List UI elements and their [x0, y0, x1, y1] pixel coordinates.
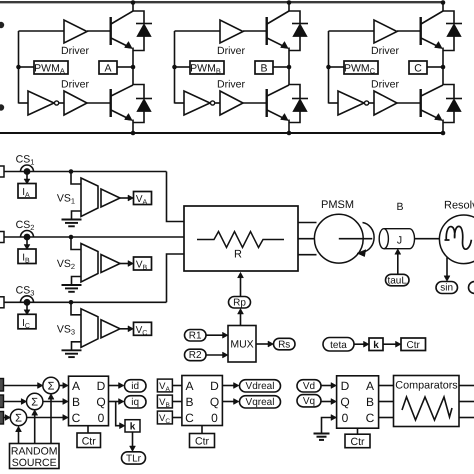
inverter (NOT gate) phase B [184, 91, 210, 115]
port iA* (left edge) [0, 379, 4, 392]
block Ctr3 [345, 434, 370, 448]
wire driver to Q5 base [397, 30, 420, 32]
wire driver to Q4 base [243, 102, 266, 104]
svg-text:Driver: Driver [371, 45, 400, 57]
wire CS3 to R block [167, 254, 185, 302]
tag VA2 [157, 379, 172, 392]
ground VS2 [62, 284, 82, 286]
wire to upper driver C [329, 30, 375, 32]
arrow random to S1 [50, 398, 52, 444]
svg-text:PMSM: PMSM [321, 199, 354, 211]
tag Vdreal [240, 380, 281, 392]
svg-text:Driver: Driver [217, 45, 246, 57]
arrow resolver to sin [446, 258, 448, 278]
arrow R2 to MUX [206, 354, 224, 356]
buffer VS3b [101, 320, 120, 338]
ground 0 input [314, 433, 330, 435]
wires dq0 to comparators [379, 385, 394, 387]
svg-text:B: B [260, 63, 267, 75]
wire VB2 to box [172, 401, 182, 403]
wire driver to Q2 base [87, 102, 110, 104]
transistor Q6 (lower IGBT, phase C) [420, 89, 422, 117]
wire to VS1 [71, 172, 81, 185]
driver U4 (lower, phase B) [220, 91, 243, 115]
wire VS2 to ground [72, 277, 82, 286]
tag Rs [274, 338, 296, 350]
svg-text:Ctr: Ctr [195, 436, 210, 448]
arrow teta to k [354, 343, 365, 345]
driver U3 (upper, phase B) [220, 20, 243, 43]
port iC* (left edge) [0, 412, 4, 425]
svg-text:R2: R2 [189, 350, 202, 361]
svg-text:Q: Q [96, 395, 105, 409]
svg-text:C: C [185, 411, 194, 425]
driver U5 (upper, phase C) [374, 20, 397, 43]
svg-text:0: 0 [98, 411, 105, 425]
block abc-to-dq0 transform 2 [182, 376, 223, 426]
box VA [134, 192, 152, 205]
driver U2 (lower, phase A) [64, 91, 87, 115]
buffer VS1b [101, 189, 120, 207]
wire phase A line [4, 171, 167, 173]
DC+ top rail [0, 1, 443, 3]
svg-text:teta: teta [330, 340, 347, 351]
tag Vqreal [240, 396, 281, 408]
svg-text:tauL: tauL [387, 275, 407, 286]
svg-text:Vq: Vq [303, 396, 315, 407]
svg-text:A: A [366, 379, 374, 393]
inverter (NOT gate) phase A [28, 91, 54, 115]
svg-text:Driver: Driver [61, 45, 90, 57]
node bottom rail phase A [131, 131, 136, 136]
svg-text:Σ: Σ [31, 396, 38, 408]
wire VC2 to box [172, 417, 182, 419]
PWMC tag box [344, 61, 378, 74]
node PWMB junction [172, 65, 177, 70]
rotation arrow [363, 223, 375, 253]
node phase output C [441, 65, 446, 70]
arrow tauL to J [397, 253, 399, 275]
box IC [18, 314, 36, 329]
wire Q2 emitter to bottom rail [132, 120, 134, 134]
svg-text:k: k [130, 422, 136, 433]
arrow Q to Vqreal [222, 401, 234, 403]
svg-text:C: C [366, 411, 375, 425]
wire to VS2 [71, 237, 81, 250]
phase label box A [99, 61, 117, 74]
svg-text:Driver: Driver [217, 79, 246, 91]
inverter (NOT gate) phase C [338, 91, 364, 115]
inertia cylinder J [384, 229, 415, 249]
node phase output B [287, 65, 292, 70]
wire VS1 to ground [72, 211, 82, 220]
arrow to VA [120, 197, 129, 199]
wire VS3 to ground [72, 342, 82, 351]
tag sin [436, 282, 458, 294]
ground VS1 [62, 219, 82, 221]
svg-text:Q: Q [340, 395, 349, 409]
port phase C input (left edge) [0, 297, 4, 308]
svg-text:J: J [397, 235, 402, 247]
wire to upper driver A [19, 30, 65, 32]
svg-text:B: B [72, 395, 80, 409]
wire to inverter B [175, 102, 185, 104]
tag Vd [297, 380, 321, 392]
amplifier VS1 [81, 178, 98, 217]
wire PWMA feed vertical [18, 31, 20, 104]
svg-text:Ctr: Ctr [82, 435, 97, 447]
wire NOT to lower driver A [59, 102, 64, 104]
wire A tag to phase node [117, 66, 133, 68]
arrow k2 to TLr [132, 432, 134, 448]
node PWMA junction [16, 65, 21, 70]
wire to Ctr1 [87, 426, 89, 433]
wire NOT to lower driver B [215, 102, 220, 104]
block Ctr [401, 338, 426, 351]
resolver [439, 215, 474, 264]
wire Q4 emitter to bottom rail [288, 120, 290, 134]
svg-text:TLr: TLr [126, 453, 142, 464]
port phase B input (left edge) [0, 232, 4, 243]
port DC+ (left edge circle) [0, 22, 4, 28]
svg-text:Rp: Rp [233, 298, 246, 309]
tag iq [125, 396, 147, 408]
svg-text:A: A [185, 379, 193, 393]
svg-text:Rs: Rs [278, 339, 290, 350]
transistor Q2 (lower IGBT, phase A) [109, 89, 111, 117]
wire VA2 to box [172, 385, 182, 387]
box IB [18, 249, 36, 264]
diode D1 (upper freewheel, phase A) [133, 11, 144, 24]
wire phase node column C [442, 48, 444, 86]
wire to inverter C [329, 102, 339, 104]
node VS2 branch [69, 235, 74, 240]
svg-text:Ctr: Ctr [351, 436, 366, 448]
port phase A input (left edge) [0, 166, 4, 177]
port DC- (left edge circle) [0, 104, 4, 110]
current sensor CS1 [21, 165, 34, 171]
amplifier VS2 [81, 244, 98, 283]
svg-text:RANDOM: RANDOM [11, 445, 58, 457]
wire CS1 to R block [167, 172, 185, 222]
node top rail phase A [131, 0, 136, 5]
arrow CS2 to IB [26, 240, 28, 245]
wire PWMA tag to node [19, 66, 35, 68]
tag Vq [297, 395, 321, 407]
block abc-to-dq0 transform [69, 376, 109, 426]
arrow R1 to MUX [206, 334, 224, 336]
PWMB tag box [190, 61, 224, 74]
transistor Q1 (upper IGBT, phase A) [109, 17, 111, 45]
block Ctr2 [190, 434, 215, 448]
diode D3 (upper freewheel, phase B) [289, 11, 300, 24]
wire port to sum 3 [4, 417, 7, 419]
triangle wave [402, 397, 452, 420]
tag tauL [386, 274, 410, 286]
box VC [134, 322, 152, 335]
node bottom rail phase B [287, 131, 292, 136]
arrow random to S2 [34, 414, 36, 444]
summer S2 [27, 393, 43, 409]
svg-text:D: D [97, 379, 106, 393]
tag TLr [122, 452, 146, 464]
diode D2 (lower freewheel, phase A) [133, 85, 144, 99]
box VB [134, 257, 152, 270]
svg-text:Comparators: Comparators [395, 379, 458, 391]
arrow MUX to Rp [240, 313, 242, 326]
current sensor CS2 [21, 231, 34, 237]
PWMA tag box [34, 61, 68, 74]
arrow Vd to D [321, 385, 332, 387]
wire port to sum 2 [4, 401, 23, 403]
svg-text:Ctr: Ctr [407, 340, 421, 351]
DC- bottom rail [0, 132, 443, 134]
wire to Ctr3 [357, 428, 359, 434]
node VS3 branch [69, 300, 74, 305]
svg-text:Vdreal: Vdreal [246, 381, 275, 392]
box IA [18, 184, 36, 199]
tag Rp [229, 297, 251, 309]
wires comparators outputs [459, 385, 474, 387]
wire to inverter A [19, 102, 29, 104]
node top rail phase C [441, 0, 446, 5]
block dq0-to-abc transform [337, 376, 379, 428]
wire driver to Q3 base [243, 30, 266, 32]
current sensor CS3 [21, 296, 34, 303]
block Comparators [394, 376, 460, 427]
transistor Q4 (lower IGBT, phase B) [266, 89, 268, 117]
diode D4 (lower freewheel, phase B) [289, 85, 300, 99]
phase label box B [255, 61, 273, 74]
arrow MUX to Rs [256, 343, 269, 345]
wire Q6 emitter to bottom rail [442, 120, 444, 134]
svg-text:Σ: Σ [15, 412, 22, 424]
svg-text:sin: sin [440, 283, 453, 294]
block MUX [228, 326, 256, 363]
summer S1 [43, 377, 59, 393]
svg-text:Resolver: Resolver [444, 199, 474, 211]
gain k [369, 338, 383, 351]
wire S3 to C [27, 417, 64, 419]
shaft line [339, 238, 373, 240]
tag id [125, 380, 147, 392]
node phase output A [131, 65, 136, 70]
diode D5 (upper freewheel, phase C) [443, 11, 454, 24]
tag R1 [185, 330, 207, 342]
wire branch to k2 [116, 402, 121, 426]
wire PWMC feed vertical [328, 31, 330, 104]
svg-text:SOURCE: SOURCE [12, 457, 57, 469]
diode D6 (lower freewheel, phase C) [443, 85, 454, 99]
arrow k to Ctr [383, 343, 397, 345]
tag teta [323, 338, 354, 352]
svg-text:0: 0 [211, 411, 218, 425]
motor PMSM [314, 214, 363, 263]
tag VB2 [157, 395, 172, 408]
transistor Q3 (upper IGBT, phase B) [266, 17, 268, 45]
block RANDOM SOURCE [10, 444, 60, 469]
port iB* (left edge) [0, 395, 4, 408]
svg-text:Driver: Driver [371, 79, 400, 91]
wire C tag to phase node [427, 66, 443, 68]
svg-text:B: B [396, 201, 403, 213]
arrow D to id [109, 385, 120, 387]
svg-text:D: D [210, 379, 219, 393]
tag R2 [185, 349, 207, 361]
svg-text:C: C [414, 63, 422, 75]
wire phase B line [4, 236, 184, 238]
wire driver to Q6 base [397, 102, 420, 104]
svg-text:Q: Q [210, 395, 219, 409]
arrow Rp to R block [240, 277, 242, 297]
wire PWMC tag to node [329, 66, 345, 68]
svg-text:0: 0 [342, 411, 349, 425]
node VS1 branch [69, 169, 74, 174]
node bottom rail phase C [441, 131, 446, 136]
svg-text:B: B [366, 395, 374, 409]
node PWMC junction [326, 65, 331, 70]
wire S1 to A [59, 385, 64, 387]
ground VS3 [62, 349, 82, 351]
svg-text:id: id [131, 381, 139, 392]
svg-text:B: B [185, 395, 193, 409]
amplifier VS3 [81, 309, 98, 348]
summer S3 [10, 409, 26, 425]
arrow Vq to Q [321, 401, 332, 403]
wires R block to PMSM [298, 222, 317, 224]
arrow CS3 to IC [26, 305, 28, 310]
svg-text:k: k [373, 340, 379, 351]
svg-text:Driver: Driver [61, 79, 90, 91]
shaft to resolver [415, 238, 441, 240]
transistor Q5 (upper IGBT, phase C) [420, 17, 422, 45]
wire port to sum 1 [4, 385, 39, 387]
svg-text:iq: iq [131, 397, 139, 408]
svg-text:Vd: Vd [303, 381, 315, 392]
block R (stator resistance) [184, 206, 298, 271]
wire ground to 0 input [322, 418, 337, 434]
gain k2 [125, 420, 140, 432]
wire to Ctr2 [201, 426, 203, 434]
wire phase node column A [132, 48, 134, 86]
phase label box C [409, 61, 427, 74]
arrow random to S3 [18, 430, 20, 444]
driver U6 (lower, phase C) [374, 91, 397, 115]
wire B tag to phase node [273, 66, 289, 68]
driver U1 (upper, phase A) [64, 20, 87, 43]
arrow to VC [120, 328, 129, 330]
tag cos (clipped) [469, 282, 474, 294]
node top rail phase B [287, 0, 292, 5]
svg-text:Vqreal: Vqreal [246, 397, 275, 408]
svg-text:Σ: Σ [48, 380, 55, 392]
svg-text:MUX: MUX [230, 339, 253, 351]
wire to VS3 [71, 302, 81, 315]
wire PWMB tag to node [175, 66, 191, 68]
resistor R [197, 232, 284, 248]
wire driver to Q1 base [87, 30, 110, 32]
svg-text:A: A [72, 379, 80, 393]
buffer VS2b [101, 255, 120, 273]
wire S2 to B [43, 401, 64, 403]
wire phase node column B [288, 48, 290, 86]
svg-text:R: R [234, 249, 242, 261]
wire to upper driver B [175, 30, 221, 32]
tag VC2 [157, 411, 172, 424]
svg-text:C: C [72, 411, 81, 425]
svg-text:R1: R1 [189, 331, 202, 342]
arrow CS1 to IA [26, 175, 28, 180]
arrow Q to iq [109, 401, 120, 403]
arrow D to Vdreal [222, 385, 234, 387]
arrow to VB [120, 263, 129, 265]
svg-text:A: A [104, 63, 111, 75]
block Ctr1 [77, 433, 101, 448]
wire PWMB feed vertical [174, 31, 176, 104]
wire phase C line [4, 301, 167, 303]
wire NOT to lower driver C [369, 102, 374, 104]
svg-text:D: D [341, 379, 350, 393]
